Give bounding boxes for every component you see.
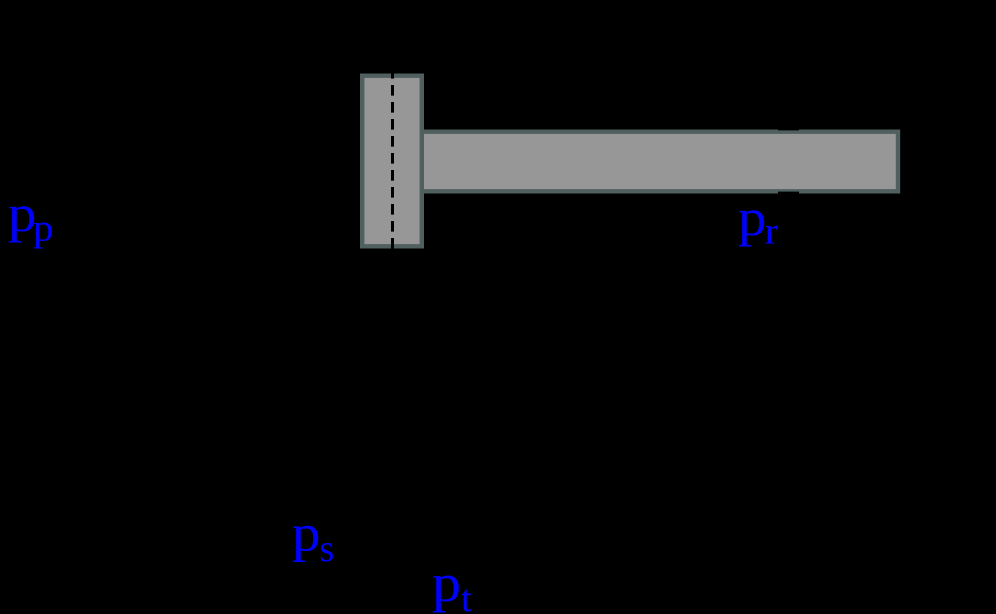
notch top (hidden black overlay on rod top border) xyxy=(778,128,799,130)
label p_r xyxy=(738,188,778,252)
svg-text:p: p xyxy=(292,503,321,562)
label p_s xyxy=(292,503,334,570)
rod (horizontal handle) xyxy=(422,132,899,192)
svg-text:t: t xyxy=(461,578,472,614)
svg-text:p: p xyxy=(33,207,54,249)
svg-text:p: p xyxy=(738,188,767,247)
plate (vertical head) xyxy=(362,76,422,247)
svg-text:p: p xyxy=(432,554,461,614)
svg-text:s: s xyxy=(320,528,335,570)
notch bottom (hidden black overlay on rod bottom border) xyxy=(778,192,799,195)
svg-text:r: r xyxy=(765,210,779,252)
dashed center line xyxy=(391,68,394,249)
label p_t xyxy=(432,554,472,614)
label p_p xyxy=(8,184,54,249)
